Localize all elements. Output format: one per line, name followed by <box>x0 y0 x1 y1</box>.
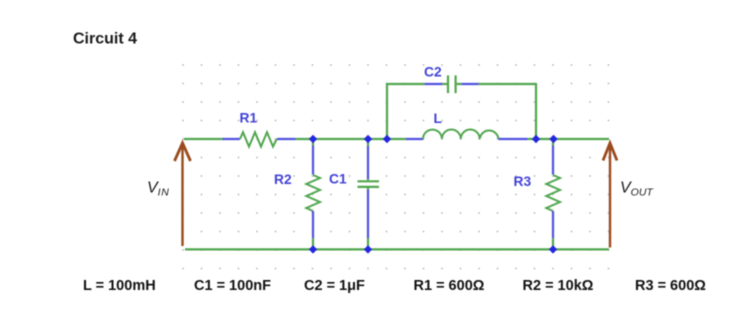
svg-text:C1 = 100nF: C1 = 100nF <box>194 278 271 294</box>
wire: R1 right lead <box>277 138 296 140</box>
wire: R3 bottom stub <box>552 238 554 249</box>
resistor R1 <box>240 132 277 146</box>
junction node at C1 top <box>364 135 372 143</box>
wire: C2 left lead <box>425 83 443 85</box>
wire: C2 right stub <box>457 83 462 85</box>
wire: C2 left stub <box>442 83 447 85</box>
wire: C1 top lead <box>367 146 369 179</box>
wire: R2 top lead <box>312 146 314 175</box>
svg-text:C1: C1 <box>329 172 347 187</box>
svg-text:R3 = 600Ω: R3 = 600Ω <box>635 278 706 294</box>
junction node at R3 bottom <box>549 245 557 253</box>
wire: top net inductor to VOUT <box>528 138 609 140</box>
junction node at R3 top <box>549 135 557 143</box>
wire: bottom net <box>185 248 609 250</box>
wire: C2 branch top right segment <box>479 83 536 85</box>
inductor L <box>423 130 499 139</box>
wire: R2 bottom stub <box>312 238 314 249</box>
junction node at C2 branch left <box>383 135 391 143</box>
wire: C1 bottom plate stub <box>367 188 369 190</box>
wire: R3 top lead <box>552 146 554 175</box>
source arrow VOUT <box>603 143 617 248</box>
wire: C1 top stub <box>367 139 369 146</box>
wire: inductor right lead <box>499 138 528 140</box>
capacitor C2 <box>448 75 456 93</box>
resistor R2 <box>306 175 320 211</box>
svg-text:C2: C2 <box>424 65 442 80</box>
svg-text:R2 = 10kΩ: R2 = 10kΩ <box>523 278 594 294</box>
wire: R2 top stub <box>312 139 314 146</box>
wire: R2 bottom lead <box>312 211 314 238</box>
junction node at C1 bottom <box>364 245 372 253</box>
wire: top net R1 to inductor <box>296 138 407 140</box>
wire: C1 bottom stub <box>367 238 369 249</box>
wire: C1 top plate stub <box>367 179 369 180</box>
svg-text:C2 = 1μF: C2 = 1μF <box>304 278 365 294</box>
svg-text:R1 = 600Ω: R1 = 600Ω <box>414 278 485 294</box>
junction node at C2 branch right <box>532 135 540 143</box>
junction node at R2 bottom <box>309 245 317 253</box>
junction node at R2 top <box>309 135 317 143</box>
svg-text:R3: R3 <box>514 174 532 189</box>
wire: R3 bottom lead <box>552 211 554 238</box>
wire: inductor left lead <box>406 138 423 140</box>
svg-text:Circuit 4: Circuit 4 <box>73 31 137 48</box>
svg-text:R2: R2 <box>274 172 292 187</box>
wire: C2 right lead <box>462 83 479 85</box>
wire: C2 branch left vertical <box>386 84 388 139</box>
svg-text:L: L <box>434 111 442 126</box>
wire: top net VIN to R1 <box>184 138 223 140</box>
wire: R1 left lead <box>223 138 241 140</box>
svg-text:L = 100mH: L = 100mH <box>83 278 156 294</box>
wire: C2 branch top left segment <box>386 83 425 85</box>
wire: C2 branch right vertical <box>535 83 537 139</box>
svg-text:R1: R1 <box>240 111 258 126</box>
wire: R3 top stub <box>552 139 554 146</box>
wire: C1 bottom lead <box>367 190 369 239</box>
resistor R3 <box>546 175 560 211</box>
source arrow VIN <box>175 143 191 246</box>
capacitor C1 <box>358 181 380 187</box>
